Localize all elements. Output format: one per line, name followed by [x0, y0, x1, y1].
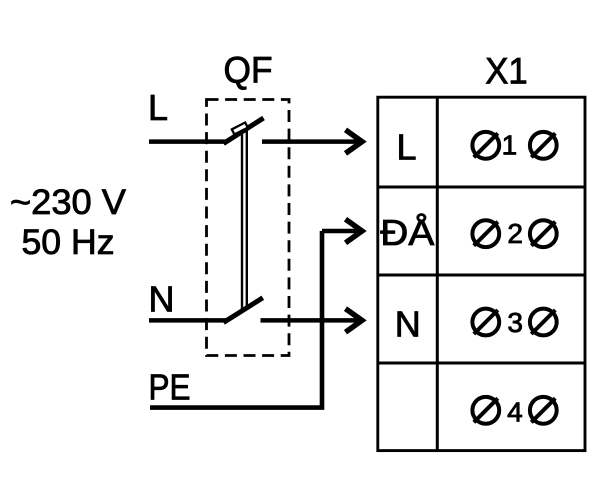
svg-text:PE: PE — [149, 367, 191, 408]
terminal X1:2 left screw — [472, 220, 499, 247]
svg-text:QF: QF — [224, 50, 273, 91]
arrowhead into X1:3 — [346, 309, 363, 333]
terminal X1:4 right screw — [530, 397, 557, 424]
breaker QF mechanism linkage — [241, 131, 243, 309]
svg-text:N: N — [395, 303, 421, 344]
terminal block X1 outline — [378, 97, 585, 450]
wire QF out L to X1:1 — [262, 139, 358, 144]
terminal X1:3 right screw — [530, 309, 557, 336]
terminal X1:1 right screw — [530, 132, 557, 159]
wire PE arm to X1:2 — [322, 229, 358, 234]
wire PE to X1:2 (with riser) — [150, 231, 322, 408]
wire N input — [149, 318, 226, 323]
svg-text:3: 3 — [507, 307, 523, 338]
arrowhead into X1:2 — [346, 219, 363, 243]
svg-text:ĐÅ: ĐÅ — [380, 212, 434, 253]
svg-text:~230 V: ~230 V — [10, 182, 126, 222]
svg-text:4: 4 — [507, 396, 523, 427]
svg-text:N: N — [149, 279, 175, 320]
svg-text:L: L — [396, 126, 416, 167]
X1 row divider 3/4 — [378, 362, 585, 365]
breaker QF dashed boundary — [207, 100, 290, 356]
breaker QF pole 1 blade (L) — [224, 118, 264, 144]
terminal X1:4 left screw — [472, 397, 499, 424]
X1 column divider — [436, 97, 439, 450]
terminal X1:1 left screw — [472, 132, 499, 159]
svg-text:2: 2 — [507, 218, 523, 249]
X1 row divider 2/3 — [378, 274, 585, 277]
svg-text:50 Hz: 50 Hz — [22, 222, 115, 262]
wire QF out N to X1:3 — [261, 318, 359, 323]
svg-text:L: L — [148, 87, 168, 128]
terminal X1:3 left screw — [472, 309, 499, 336]
breaker QF pole 2 blade (N) — [224, 298, 263, 323]
svg-text:1: 1 — [502, 130, 518, 161]
X1 row divider 1/2 — [378, 186, 585, 189]
svg-text:X1: X1 — [485, 51, 528, 92]
arrowhead into X1:1 — [346, 130, 363, 154]
breaker QF thermal element box — [232, 123, 248, 135]
wire L input — [149, 139, 226, 144]
terminal X1:2 right screw — [530, 220, 557, 247]
